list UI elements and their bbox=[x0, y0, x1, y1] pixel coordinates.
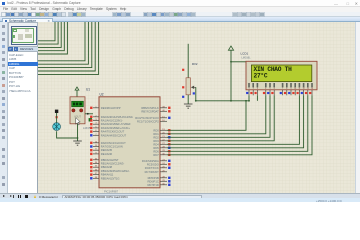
svg-text:RA5/AN4/SS/C2OUT: RA5/AN4/SS/C2OUT bbox=[101, 133, 127, 137]
U2 pin 16 (RC1/T1OSI/CCP2) bbox=[137, 119, 167, 123]
U2 pin 14 (RA6/OSC2/CLKOUT) bbox=[90, 141, 126, 145]
logic state square (wiper net) bbox=[193, 92, 195, 94]
U2 pin 30 (RD7/P1D) bbox=[147, 183, 170, 187]
wire bundle-B segment 1 (clipped top-left) bbox=[38, 22, 85, 61]
svg-text:RC1/T1OSI/CCP2: RC1/T1OSI/CCP2 bbox=[137, 119, 159, 123]
wire bundle-A segment 2 (clipped top-left) bbox=[38, 22, 58, 44]
svg-text:LM35: LM35 bbox=[83, 126, 91, 130]
svg-text:RB3/AN9/PGM/C12IN2-: RB3/AN9/PGM/C12IN2- bbox=[101, 169, 130, 173]
svg-text:RA2/AN2/VREF-/CVREF: RA2/AN2/VREF-/CVREF bbox=[101, 122, 131, 126]
LCD1 pin 11 (D4) bbox=[297, 83, 301, 95]
svg-text:U1: U1 bbox=[86, 87, 90, 91]
wire bundle-B segment 5 (clipped top-left) bbox=[38, 22, 99, 75]
svg-text:RA1/AN1/C12IN1-: RA1/AN1/C12IN1- bbox=[101, 119, 123, 123]
U2 pin 27 (RD4) bbox=[153, 142, 170, 146]
U2 pin 36 (RB3/AN9/PGM/C12IN2-) bbox=[90, 169, 130, 173]
wire U2 RD3 to LCD bbox=[167, 95, 274, 141]
schematic area bbox=[38, 22, 356, 193]
U2 pin 8 (RE0/AN5) bbox=[90, 148, 112, 152]
svg-text:RB1/AN10/C12IN3-: RB1/AN10/C12IN3- bbox=[101, 162, 125, 166]
U2 pin 29 (RD6) bbox=[153, 149, 170, 153]
ground symbol under RV2 bbox=[184, 104, 193, 108]
svg-text:RB5/AN13/T1G: RB5/AN13/T1G bbox=[101, 176, 120, 180]
svg-text:RE1/AN6: RE1/AN6 bbox=[101, 152, 113, 156]
svg-text:RB6/ICSPCLK: RB6/ICSPCLK bbox=[141, 106, 159, 110]
wire U2 RD5 to LCD bbox=[167, 95, 304, 148]
preview pane bbox=[8, 22, 38, 47]
U2 pin 19 (RD0) bbox=[153, 128, 170, 132]
mouse cursor bbox=[76, 118, 80, 125]
U2 pin 28 (RD5/P1B) bbox=[148, 176, 171, 180]
wire U1 GND pin down bbox=[77, 124, 79, 141]
LCD1 pin 7 (D0) bbox=[280, 83, 284, 95]
power terminal VCC near LCD bbox=[228, 46, 233, 50]
U2 pin 2 (RA0/AN0/ULPWU/C12IN0-) bbox=[90, 115, 133, 119]
U2 pin 5 (RA3/AN3/VREF+/C1IN+) bbox=[90, 126, 130, 130]
U2 pin 7 (RA5/AN4/SS/C2OUT) bbox=[90, 133, 126, 137]
wire bundle-B segment 3 (clipped top-left) bbox=[38, 22, 92, 68]
wire U2 RD2 to LCD bbox=[167, 95, 270, 137]
LCD1 pin 3 (VEE) bbox=[255, 83, 259, 95]
microcontroller U2 PIC16F887 bbox=[99, 97, 160, 188]
wire VCC down and branch bbox=[230, 50, 232, 101]
svg-text:RB0/AN12/INT: RB0/AN12/INT bbox=[101, 158, 119, 162]
LCD1 pin 9 (D2) bbox=[288, 83, 292, 95]
power terminal VCC above U1 bbox=[75, 87, 79, 90]
U2 pin 21 (RD2) bbox=[153, 135, 170, 139]
right scroll strip bbox=[355, 22, 360, 193]
LCD1 pin 13 (D6) bbox=[305, 83, 309, 95]
svg-text:RC0/T1OSO/T1CKI: RC0/T1OSO/T1CKI bbox=[135, 116, 159, 120]
toolbar bbox=[0, 12, 360, 17]
U2 pin 33 (RB0/AN12/INT) bbox=[90, 158, 119, 162]
U2 pin 40 (RB7/ICSPDAT) bbox=[141, 109, 170, 113]
U2 pin 20 (RD1) bbox=[153, 132, 170, 136]
LCD1 pin 6 (E) bbox=[271, 83, 275, 95]
svg-text:27°C: 27°C bbox=[254, 73, 268, 80]
svg-text:RD5: RD5 bbox=[153, 146, 159, 150]
wire RV2 bottom to ground bbox=[187, 95, 189, 104]
U2 pin 4 (RA2/AN2/VREF-/CVREF) bbox=[90, 122, 131, 126]
LCD1 pin 1 (VSS) bbox=[246, 83, 250, 95]
LCD1 pin 10 (D3) bbox=[292, 83, 296, 95]
U2 pin 39 (RB6/ICSPCLK) bbox=[141, 106, 170, 110]
left tool strip bbox=[0, 22, 8, 193]
wire LCD VSS/VEE down to rail bbox=[248, 95, 250, 101]
U2 pin 26 (RC7/RX/DT) bbox=[145, 170, 167, 174]
LCD1 pin 2 (VDD) bbox=[250, 83, 254, 95]
wire U2 RD1 to LCD bbox=[167, 95, 266, 134]
U2 pin 35 (RB2/AN8) bbox=[90, 165, 112, 169]
svg-text:RA3/AN3/VREF+/C1IN+: RA3/AN3/VREF+/C1IN+ bbox=[101, 126, 131, 130]
wire bundle-B segment 4 (clipped top-left) bbox=[38, 22, 95, 71]
svg-text:RD0: RD0 bbox=[153, 128, 159, 132]
svg-text:RD1: RD1 bbox=[153, 132, 159, 136]
sounder LS1 (cyan circle) bbox=[53, 123, 61, 131]
svg-text:VOUT: VOUT bbox=[74, 116, 81, 119]
U2 pin 29 (RD6/P1C) bbox=[147, 179, 170, 183]
svg-text:RE0/AN5: RE0/AN5 bbox=[101, 148, 113, 152]
sensor U1 LM35 bbox=[70, 97, 85, 124]
U2 pin 30 (RD7) bbox=[153, 153, 170, 157]
LCD1 pin 8 (D1) bbox=[284, 83, 288, 95]
voltage probe square bbox=[89, 118, 92, 121]
wire bundle-A segment 1 (clipped top-left) bbox=[38, 22, 55, 41]
wire to RV2 top bbox=[187, 44, 189, 78]
wire RV2 wiper down bbox=[196, 87, 249, 101]
potentiometer RV2 bbox=[186, 78, 190, 95]
svg-text:RA0/AN0/ULPWU/C12IN0-: RA0/AN0/ULPWU/C12IN0- bbox=[101, 115, 134, 119]
wire VOUT U1 to RA0 bbox=[85, 113, 93, 115]
LCD1 pin 12 (D5) bbox=[301, 83, 305, 95]
U2 pin 37 (RB4/AN11) bbox=[90, 173, 114, 177]
svg-text:RD6/P1C: RD6/P1C bbox=[147, 179, 158, 183]
U2 pin 15 (RC0/T1OSO/T1CKI) bbox=[135, 116, 170, 120]
LCD1 pin 4 (RS) bbox=[263, 83, 267, 95]
svg-text:RA6/OSC2/CLKOUT: RA6/OSC2/CLKOUT bbox=[101, 141, 126, 145]
ground symbol under U1 bbox=[73, 141, 82, 145]
U2 pin 38 (RB5/AN13/T1G) bbox=[90, 176, 119, 180]
svg-text:RB4/AN11: RB4/AN11 bbox=[101, 173, 114, 177]
U2 pin 3 (RA1/AN1/C12IN1-) bbox=[90, 119, 123, 123]
status bar bbox=[0, 198, 360, 202]
U2 pin 28 (RD5) bbox=[153, 146, 170, 150]
svg-text:RC7/RX/DT: RC7/RX/DT bbox=[145, 170, 160, 174]
black terminal block above sounder bbox=[55, 110, 58, 113]
U2 pin 22 (RD3) bbox=[153, 139, 170, 143]
svg-text:RD7/P1D: RD7/P1D bbox=[147, 183, 158, 187]
U2 pin 34 (RB1/AN10/C12IN3-) bbox=[90, 162, 124, 166]
svg-text:RD4: RD4 bbox=[153, 142, 159, 146]
title bar bbox=[0, 0, 360, 7]
wire U2 RD6 to LCD bbox=[167, 95, 308, 151]
device list bbox=[8, 52, 38, 193]
LCD display LCD1 LM016L bbox=[246, 61, 317, 90]
svg-text:RD2: RD2 bbox=[153, 135, 159, 139]
LCD1 pin 14 (D7) bbox=[309, 83, 313, 95]
wire U2 RD7 to LCD bbox=[167, 95, 312, 155]
svg-text:RV2: RV2 bbox=[192, 62, 198, 66]
U2 pin 13 (RA7/OSC1/CLKIN) bbox=[90, 145, 123, 149]
svg-text:RB7/ICSPDAT: RB7/ICSPDAT bbox=[141, 109, 159, 113]
wire bundle-B segment 2 (clipped top-left) bbox=[38, 22, 88, 64]
svg-text:RD6: RD6 bbox=[153, 149, 159, 153]
svg-text:LM016L: LM016L bbox=[242, 57, 252, 60]
U2 pin 1 (RE3/MCLR/VPP) bbox=[90, 106, 121, 110]
menu bar bbox=[0, 7, 360, 13]
wire U2 RD4 to LCD bbox=[167, 95, 299, 144]
tab bar bbox=[0, 17, 360, 22]
svg-text:RB2/AN8: RB2/AN8 bbox=[101, 165, 113, 169]
wire U2 RD0 to LCD bbox=[167, 101, 246, 131]
svg-text:RE3/MCLR/VPP: RE3/MCLR/VPP bbox=[101, 106, 121, 110]
svg-text:RA4/T0CKI/C1OUT: RA4/T0CKI/C1OUT bbox=[101, 130, 125, 134]
svg-text:RC4/SDI/SDA: RC4/SDI/SDA bbox=[142, 159, 159, 163]
U2 pin 25 (RC6/TX/CK) bbox=[145, 166, 171, 170]
svg-text:RD5/P1B: RD5/P1B bbox=[148, 176, 159, 180]
U2 pin 23 (RC4/SDI/SDA) bbox=[142, 159, 171, 163]
svg-text:RC5/SDO: RC5/SDO bbox=[147, 162, 159, 166]
red logic state square bbox=[56, 116, 58, 118]
LCD1 pin 5 (RW) bbox=[267, 83, 271, 95]
svg-text:RD3: RD3 bbox=[153, 139, 159, 143]
wire bundle-A segment 5 (clipped top-left) bbox=[38, 22, 67, 54]
U2 pin 24 (RC5/SDO) bbox=[147, 162, 171, 166]
svg-text:U2: U2 bbox=[100, 92, 104, 96]
svg-text:RA7/OSC1/CLKIN: RA7/OSC1/CLKIN bbox=[101, 145, 123, 149]
wire bundle-A segment 3 (clipped top-left) bbox=[38, 22, 61, 48]
U2 pin 9 (RE1/AN6) bbox=[90, 152, 112, 156]
U2 pin 6 (RA4/T0CKI/C1OUT) bbox=[90, 130, 125, 134]
wire bundle-A segment 4 (clipped top-left) bbox=[38, 22, 64, 51]
bottom control bar bbox=[0, 193, 360, 198]
svg-text:RC6/TX/CK: RC6/TX/CK bbox=[145, 166, 159, 170]
wire sounder to U1 ground node bbox=[57, 131, 78, 138]
devices header bbox=[8, 47, 38, 53]
svg-text:RD7: RD7 bbox=[153, 153, 159, 157]
svg-text:LCD1: LCD1 bbox=[241, 51, 249, 55]
